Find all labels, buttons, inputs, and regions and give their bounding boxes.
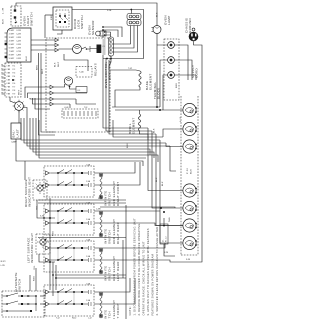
svg-text:FEATURES SHOWN ON POWER DIAGRA: FEATURES SHOWN ON POWER DIAGRAM <box>151 254 155 316</box>
svg-text:P-4: P-4 <box>13 76 16 78</box>
infinite switch group FRONT <box>44 285 94 316</box>
svg-text:P-7: P-7 <box>13 87 16 89</box>
svg-text:P-3: P-3 <box>13 73 16 75</box>
surface element E4 <box>183 184 196 197</box>
svg-text:BLK: BLK <box>156 177 158 182</box>
relay K3 contact <box>69 86 71 88</box>
svg-text:RELAYS: RELAYS <box>94 63 98 76</box>
svg-text:SWITCH: SWITCH <box>18 278 22 292</box>
svg-text:P-5: P-5 <box>13 80 16 82</box>
terminal posts <box>168 42 175 49</box>
svg-text:RED: RED <box>127 143 129 148</box>
svg-text:BLK: BLK <box>154 128 156 133</box>
oven lamp DS1 <box>15 102 24 111</box>
svg-text:C-3W: C-3W <box>96 209 101 211</box>
svg-text:W-12Y: W-12Y <box>1 261 7 263</box>
svg-text:C-7W: C-7W <box>16 51 21 53</box>
wire L1 top <box>16 3 157 26</box>
relay wires lower <box>54 84 65 87</box>
svg-text:L-1W: L-1W <box>3 8 5 14</box>
door lock switch S2 box <box>53 7 72 30</box>
infinite switch group FRONT <box>44 166 94 197</box>
infinite switch group REAR <box>44 204 94 235</box>
terminal block dashed <box>164 39 179 100</box>
wire ground down <box>183 41 202 262</box>
surface element coil REAR <box>99 211 103 215</box>
svg-text:BLK: BLK <box>191 169 193 174</box>
supply cord wires <box>174 45 188 80</box>
svg-text:T-12: T-12 <box>84 107 87 109</box>
svg-text:TAN: TAN <box>168 217 171 222</box>
wire L2 top <box>72 10 144 59</box>
svg-text:INDICATOR LIGHT: INDICATOR LIGHT <box>28 177 32 207</box>
svg-text:ELEMENT: ELEMENT <box>132 117 136 134</box>
svg-text:SENSOR: SENSOR <box>91 20 95 35</box>
element feed wires <box>166 143 183 147</box>
svg-text:GROUND: GROUND <box>188 18 192 33</box>
surface element E5 <box>183 201 196 214</box>
svg-text:8 GRY: 8 GRY <box>9 55 15 57</box>
svg-text:P-2: P-2 <box>13 69 16 71</box>
ballast T1 <box>11 123 21 139</box>
connector P3 strip <box>109 37 114 56</box>
svg-text:LAST: LAST <box>16 129 20 138</box>
svg-text:P-9: P-9 <box>13 94 16 96</box>
svg-text:INDICATOR LIGHT: INDICATOR LIGHT <box>30 233 34 263</box>
right bus verticals <box>102 55 104 120</box>
P1 pins <box>2 65 6 67</box>
svg-text:C-8W: C-8W <box>16 55 21 57</box>
electronic clock control U1 <box>7 28 31 62</box>
bus wires to right <box>103 120 148 128</box>
connector P1 <box>5 63 21 97</box>
svg-text:4 GRY: 4 GRY <box>9 41 15 43</box>
svg-text:P5: P5 <box>1 80 3 82</box>
svg-text:2. REMOVE WIRE COVER TO RE-COV: 2. REMOVE WIRE COVER TO RE-COVER BEFORE … <box>137 223 141 315</box>
svg-text:C-6W: C-6W <box>16 48 21 50</box>
svg-text:C-3W: C-3W <box>16 37 21 39</box>
svg-text:P-1: P-1 <box>13 66 16 68</box>
svg-text:L-1W: L-1W <box>1 265 5 267</box>
rail wires <box>112 106 160 108</box>
inter-block wires <box>38 199 126 201</box>
svg-text:P2: P2 <box>1 68 3 70</box>
wire long feed <box>100 207 175 208</box>
svg-text:P1: P1 <box>1 64 3 66</box>
surface units dashed enclosure <box>180 96 182 255</box>
svg-text:SWITCH: SWITCH <box>30 12 34 26</box>
svg-text:WHT: WHT <box>58 61 60 67</box>
svg-text:RIGHT REAR: RIGHT REAR <box>116 222 120 244</box>
svg-text:P3: P3 <box>1 72 3 74</box>
svg-text:P-8: P-8 <box>13 90 16 92</box>
wire broil <box>139 110 141 114</box>
spade terminals lower <box>50 85 54 89</box>
oven light switch S1 <box>11 6 21 26</box>
surface element E3 <box>183 140 196 153</box>
wires terminal to left <box>157 45 168 107</box>
surface element E2 <box>183 122 196 135</box>
svg-text:BRN: BRN <box>37 65 39 70</box>
surface element E1 <box>183 103 196 116</box>
surface element coil FRONT <box>99 292 103 296</box>
svg-text:WHT: WHT <box>42 68 44 74</box>
wire bake feed <box>110 69 136 71</box>
svg-text:C-5W: C-5W <box>16 44 21 46</box>
svg-text:P-6: P-6 <box>13 83 16 85</box>
svg-text:OPERATING RANGE. CHECK ALL WIR: OPERATING RANGE. CHECK ALL WIRING TO UNI… <box>142 241 146 315</box>
svg-text:T-1/2: T-1/2 <box>128 68 132 70</box>
svg-text:1 GRY: 1 GRY <box>9 30 15 32</box>
svg-text:5 GRY: 5 GRY <box>9 44 15 46</box>
surface element E6 <box>183 219 196 232</box>
svg-text:P8: P8 <box>1 92 3 94</box>
surface element coil REAR <box>99 248 103 252</box>
connector P2 6-pin <box>127 14 141 20</box>
svg-text:RED: RED <box>176 83 178 88</box>
svg-text:P-26: P-26 <box>187 168 189 174</box>
infinite switch group REAR <box>44 241 94 272</box>
svg-text:P4: P4 <box>1 76 3 78</box>
U1 terminal T2 <box>5 56 7 58</box>
svg-text:P6: P6 <box>1 84 3 86</box>
svg-text:4. SERVICER PLEASE RETURN DIAG: 4. SERVICER PLEASE RETURN DIAGRAM TO RAN… <box>155 227 159 316</box>
svg-text:RED: RED <box>53 231 55 236</box>
svg-text:L-140: L-140 <box>64 107 68 109</box>
wire lamp down <box>156 34 158 46</box>
block output wires <box>94 166 135 173</box>
wire bake return <box>115 87 140 107</box>
oven control EOC dashed box <box>46 38 110 132</box>
wire lamp to P1 <box>10 97 15 103</box>
svg-text:L1: L1 <box>163 239 165 242</box>
svg-text:LAMP: LAMP <box>167 15 171 25</box>
svg-text:K-3: K-3 <box>78 90 81 92</box>
svg-text:9 GRY: 9 GRY <box>9 58 15 60</box>
svg-text:X-1B: X-1B <box>107 10 112 12</box>
svg-text:C-4W: C-4W <box>16 41 21 43</box>
svg-text:T-140: T-140 <box>79 72 84 74</box>
wires P2 <box>130 10 132 14</box>
wire bus nest <box>21 118 55 140</box>
svg-text:LAMP: LAMP <box>12 141 18 144</box>
surface element coil FRONT <box>99 173 103 177</box>
svg-text:3 GRY: 3 GRY <box>9 37 15 39</box>
bake element R1 <box>139 71 141 87</box>
broil element R2 <box>138 114 140 131</box>
wires into relay1 <box>31 39 55 41</box>
relay K3 <box>64 77 72 85</box>
wire lamp-ballast <box>18 111 20 124</box>
svg-text:BLK: BLK <box>3 19 5 24</box>
svg-text:CORD: CORD <box>195 68 199 78</box>
svg-text:2 GRY: 2 GRY <box>9 34 15 36</box>
svg-text:SWITCH: SWITCH <box>80 15 84 29</box>
vertical connect wires <box>49 198 51 290</box>
svg-text:NOTE:: NOTE: <box>128 306 132 315</box>
wire ballast out <box>16 139 55 161</box>
svg-text:6 GRY: 6 GRY <box>9 48 15 50</box>
svg-text:7 GRY: 7 GRY <box>9 51 15 53</box>
svg-text:WHT: WHT <box>19 89 21 95</box>
wire door lock down <box>45 14 53 16</box>
terminal row <box>62 109 98 118</box>
relay K1 contacts <box>82 47 87 49</box>
svg-text:(EOC): (EOC) <box>108 70 112 80</box>
svg-text:C-1W: C-1W <box>16 30 21 32</box>
bus lines lower spans <box>55 139 160 141</box>
svg-text:RED: RED <box>34 276 36 281</box>
svg-text:X-3W: X-3W <box>98 198 103 200</box>
svg-text:BLK: BLK <box>157 12 159 17</box>
svg-text:BLK: BLK <box>162 181 164 186</box>
vertical BRN WHT wires <box>39 53 56 135</box>
relay K1 <box>73 45 82 54</box>
wires above P3 <box>102 26 104 28</box>
svg-text:C-2W: C-2W <box>16 34 21 36</box>
wire staircase <box>64 54 88 71</box>
relay sub box dashed <box>76 67 92 78</box>
svg-text:ELEMENT: ELEMENT <box>149 73 153 90</box>
svg-text:W-12: W-12 <box>166 236 168 242</box>
svg-text:C-9W: C-9W <box>16 58 21 60</box>
svg-text:BLK: BLK <box>55 62 57 67</box>
connector bar J2 <box>97 45 102 54</box>
svg-text:3. APPLIES ONLY TO RANGES EQUI: 3. APPLIES ONLY TO RANGES EQUIPPED WITH … <box>146 228 150 315</box>
surface element E7 <box>183 236 196 249</box>
wire bundle P1-relays <box>25 87 50 98</box>
svg-text:1. DISCONNECT RANGE FROM POWER: 1. DISCONNECT RANGE FROM POWER BEFORE SE… <box>133 218 137 316</box>
svg-text:LEFT FRONT: LEFT FRONT <box>116 303 120 319</box>
alternate switch wires <box>40 295 46 297</box>
svg-text:P2: P2 <box>103 46 105 48</box>
svg-text:P7: P7 <box>1 88 3 90</box>
svg-text:BLK: BLK <box>26 56 28 61</box>
P3 pin hatches <box>103 39 106 41</box>
U1 terminal T1 <box>5 43 7 45</box>
